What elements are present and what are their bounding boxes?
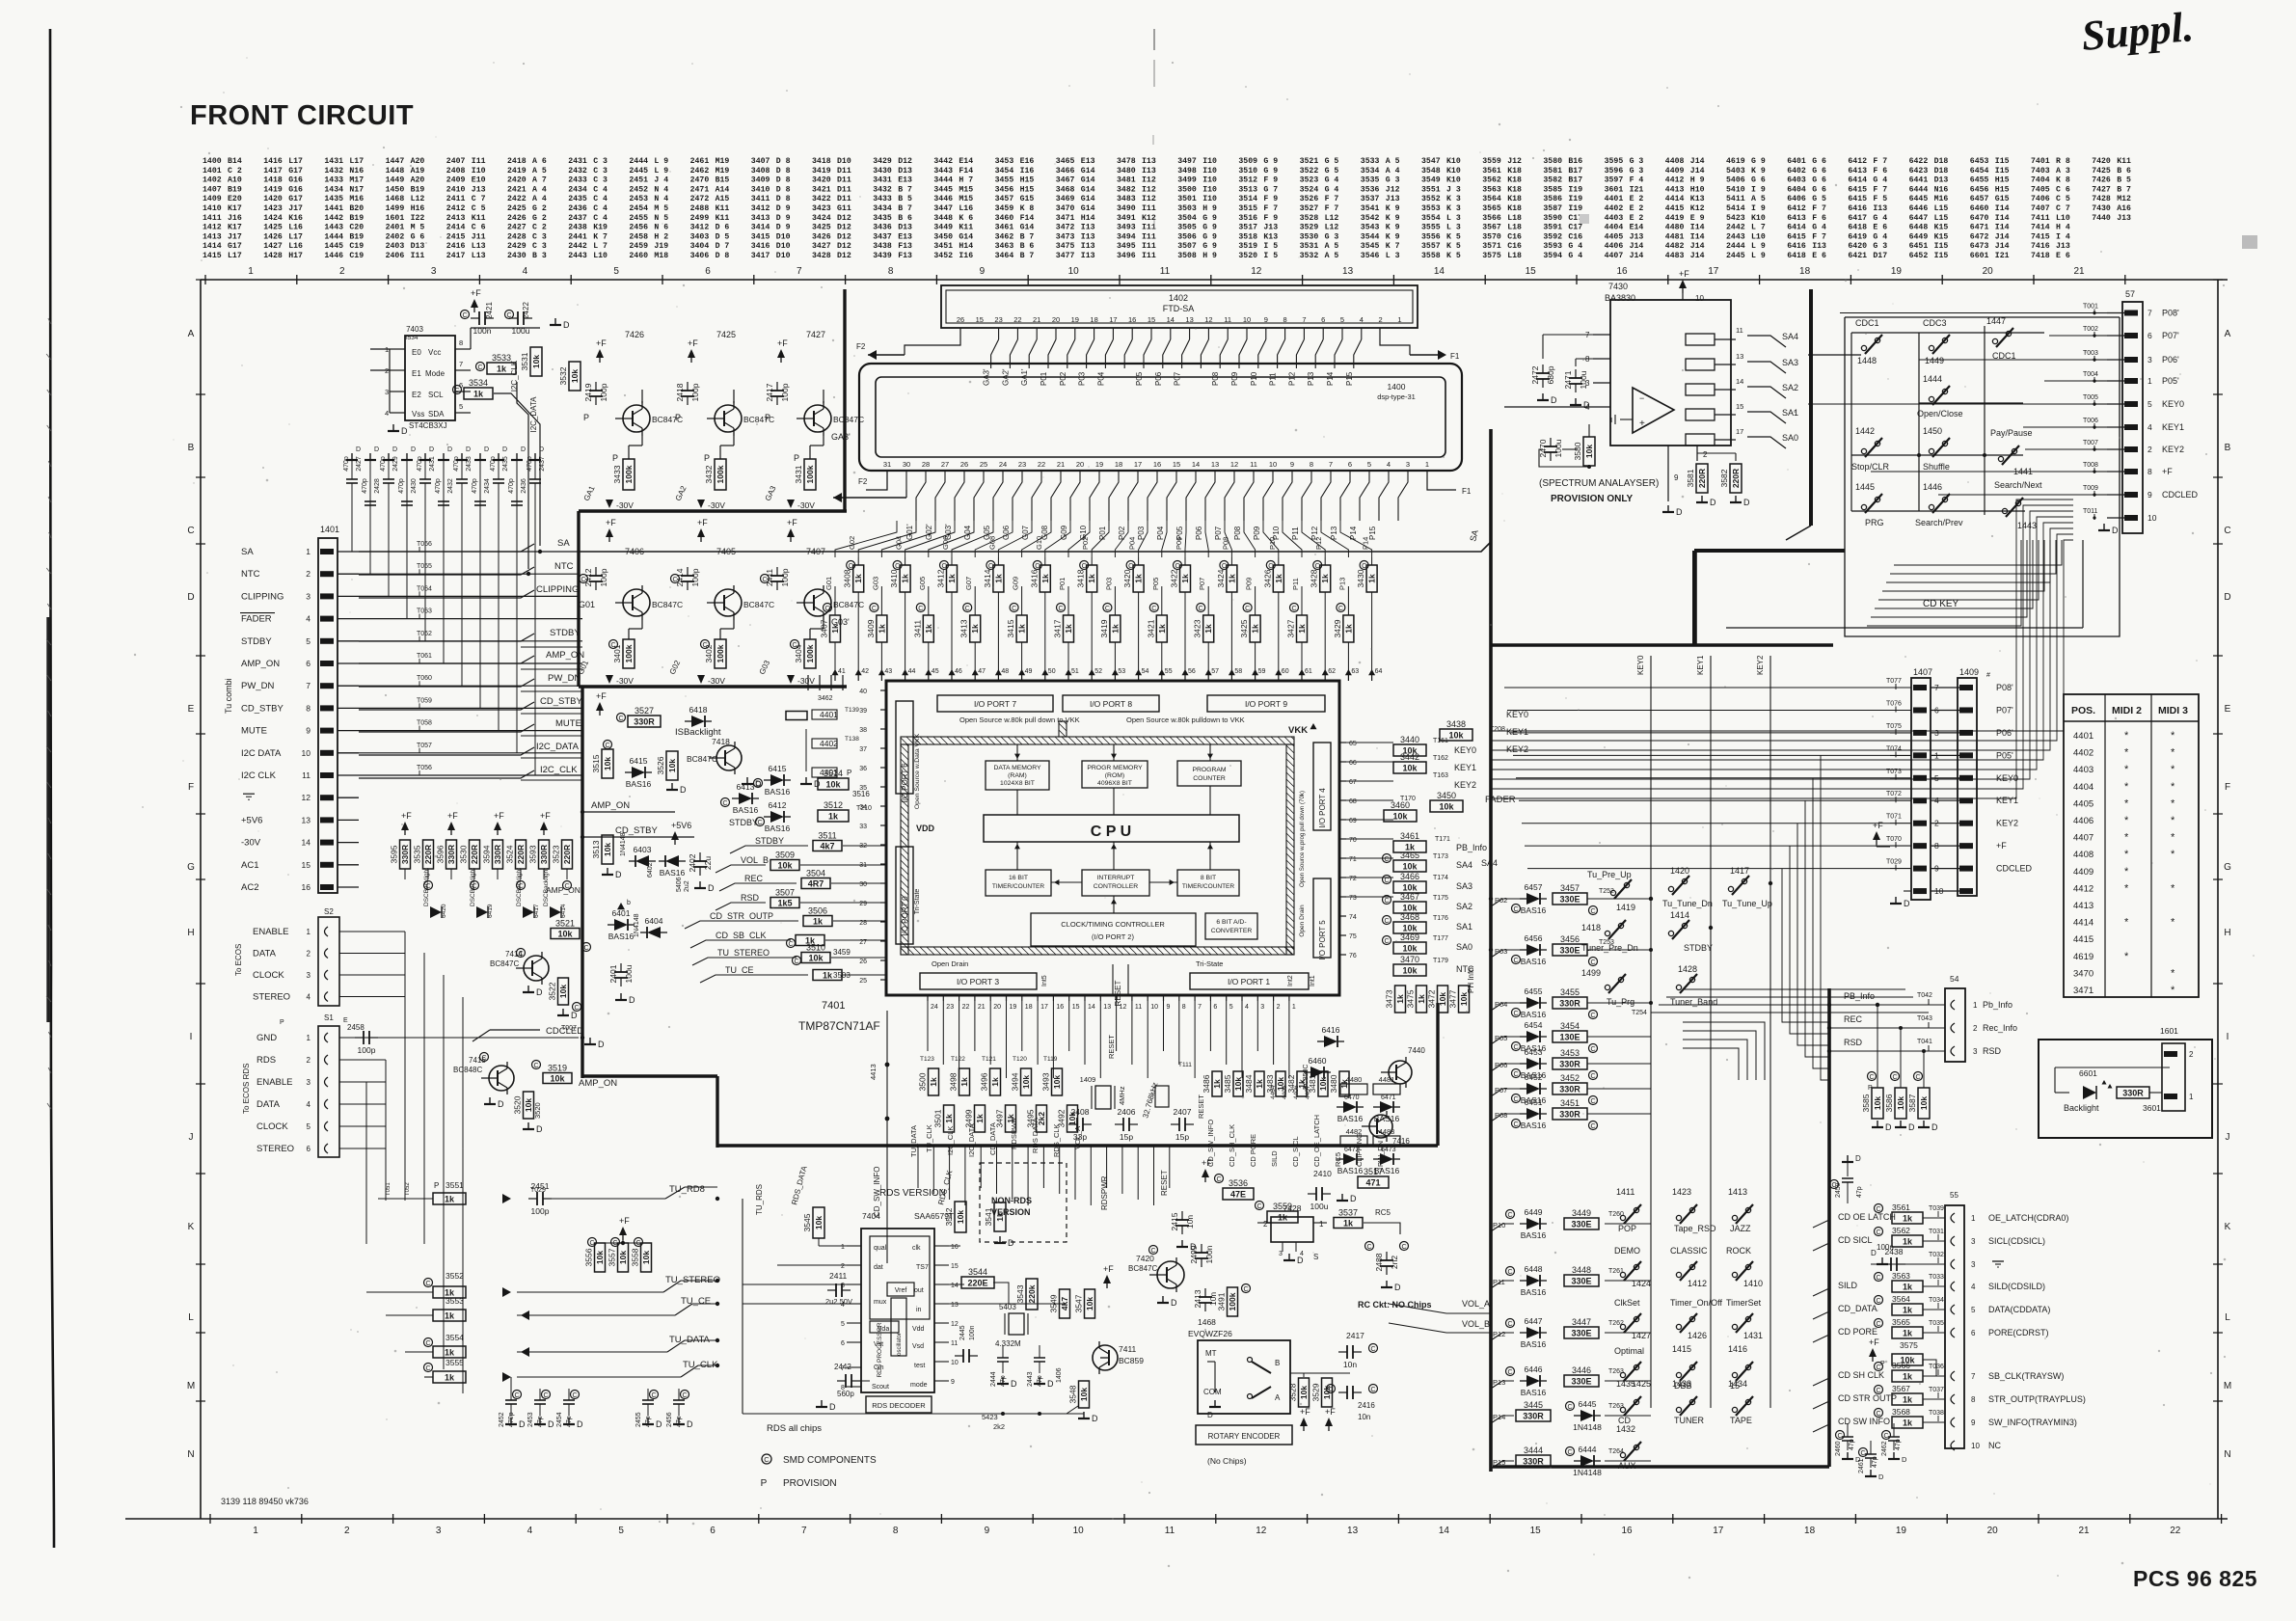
svg-text:T066: T066 xyxy=(417,541,432,548)
svg-text:I/O PORT 3: I/O PORT 3 xyxy=(957,977,999,986)
svg-text:I13: I13 xyxy=(1812,242,1826,251)
svg-text:1024X8 BIT: 1024X8 BIT xyxy=(1000,780,1035,787)
wire F1 display right xyxy=(1427,471,1456,490)
svg-text:D 8: D 8 xyxy=(776,157,791,166)
svg-text:13: 13 xyxy=(302,815,311,824)
svg-text:I14: I14 xyxy=(1995,204,2010,213)
svg-text:3491: 3491 xyxy=(1217,1292,1227,1310)
svg-text:C: C xyxy=(454,388,459,394)
svg-text:D: D xyxy=(187,592,194,603)
svg-text:3551: 3551 xyxy=(446,1180,464,1190)
resistor R3533 1k xyxy=(487,363,516,374)
svg-text:3480: 3480 xyxy=(1329,1074,1338,1093)
svg-text:+F: +F xyxy=(596,338,607,348)
svg-text:C: C xyxy=(1513,906,1518,913)
svg-text:2: 2 xyxy=(1263,1220,1268,1229)
svg-text:F 9: F 9 xyxy=(1263,195,1278,203)
svg-text:Vsd: Vsd xyxy=(912,1343,924,1350)
resistor R3522 10k xyxy=(558,978,569,1005)
svg-text:3597: 3597 xyxy=(1605,176,1624,185)
svg-text:E 2: E 2 xyxy=(1630,195,1644,203)
svg-text:10k: 10k xyxy=(595,1251,605,1264)
svg-text:AMP_ON: AMP_ON xyxy=(591,800,630,811)
svg-text:4619: 4619 xyxy=(1726,157,1745,166)
svg-text:I11: I11 xyxy=(411,252,425,260)
resistor R3411 1k array xyxy=(940,561,949,570)
svg-text:8 BIT: 8 BIT xyxy=(1201,875,1216,881)
svg-text:1k: 1k xyxy=(1903,1237,1913,1247)
svg-text:15: 15 xyxy=(976,315,984,324)
svg-text:P02: P02 xyxy=(1495,896,1507,905)
transistor Q7416 BC848C xyxy=(1369,1115,1392,1138)
svg-text:1k: 1k xyxy=(823,971,833,981)
svg-text:68: 68 xyxy=(1349,798,1357,805)
svg-text:D 9: D 9 xyxy=(776,214,791,223)
svg-text:C: C xyxy=(425,1365,430,1372)
svg-text:33p: 33p xyxy=(1073,1132,1087,1142)
svg-text:2451: 2451 xyxy=(629,176,648,185)
resistor R3526 10k xyxy=(666,751,678,780)
svg-text:C: C xyxy=(1216,1176,1221,1183)
svg-text:D: D xyxy=(1171,1298,1177,1308)
svg-text:P08': P08' xyxy=(2162,309,2179,318)
svg-text:3423: 3423 xyxy=(1193,619,1202,637)
svg-text:T122: T122 xyxy=(951,1056,965,1063)
svg-text:RDS VERSION: RDS VERSION xyxy=(879,1188,946,1199)
svg-text:F 7: F 7 xyxy=(1325,204,1339,213)
svg-text:D12: D12 xyxy=(837,214,851,223)
svg-text:9: 9 xyxy=(1674,473,1679,482)
svg-text:5: 5 xyxy=(1229,1004,1233,1011)
svg-text:1402: 1402 xyxy=(1169,293,1188,303)
svg-text:3416: 3416 xyxy=(751,242,770,251)
svg-text:H14: H14 xyxy=(959,242,973,251)
wires CPU right edge to resistor rows xyxy=(1339,742,1393,743)
IC U7403 ST4CB3XJ xyxy=(405,336,455,420)
svg-text:2445: 2445 xyxy=(1726,252,1745,260)
svg-text:3513: 3513 xyxy=(1238,185,1257,194)
svg-text:3421: 3421 xyxy=(812,185,831,194)
svg-text:1k: 1k xyxy=(975,1114,985,1123)
svg-text:9: 9 xyxy=(985,1526,990,1536)
svg-text:6445: 6445 xyxy=(1909,195,1929,203)
svg-text:3547: 3547 xyxy=(1421,157,1441,166)
svg-text:#: # xyxy=(1986,672,1990,679)
svg-text:3422: 3422 xyxy=(1170,569,1179,587)
svg-text:3426: 3426 xyxy=(812,232,831,241)
svg-text:*: * xyxy=(2124,917,2129,929)
resistor R3491 100k xyxy=(1228,1287,1238,1316)
svg-text:3477: 3477 xyxy=(1448,989,1458,1008)
svg-text:3504: 3504 xyxy=(1177,214,1197,223)
svg-text:10k: 10k xyxy=(1896,1096,1905,1110)
capacitor 100p at 7426 xyxy=(589,390,603,392)
svg-text:C16: C16 xyxy=(1568,232,1582,241)
7404 pin stubs xyxy=(847,1245,861,1247)
svg-text:3429: 3429 xyxy=(873,157,892,166)
svg-text:1442: 1442 xyxy=(1855,426,1875,436)
svg-text:C: C xyxy=(572,1392,577,1399)
svg-text:470p: 470p xyxy=(417,456,423,472)
svg-text:2441: 2441 xyxy=(568,232,587,241)
svg-text:6420: 6420 xyxy=(1848,242,1867,251)
svg-text:H 9: H 9 xyxy=(1690,176,1705,185)
resistor R3549 4k7 xyxy=(1060,1289,1070,1318)
svg-text:10: 10 xyxy=(2147,513,2157,523)
svg-text:3419: 3419 xyxy=(1099,619,1109,637)
svg-text:3454: 3454 xyxy=(1560,1021,1580,1031)
svg-text:P14: P14 xyxy=(1326,371,1335,386)
svg-text:-30V: -30V xyxy=(708,500,725,510)
svg-text:1420: 1420 xyxy=(263,195,283,203)
svg-text:L10: L10 xyxy=(1751,232,1766,241)
svg-text:A10: A10 xyxy=(228,176,242,185)
svg-text:4.332M: 4.332M xyxy=(995,1339,1021,1348)
svg-text:J: J xyxy=(189,1132,194,1143)
svg-text:1: 1 xyxy=(1971,1214,1976,1223)
svg-text:D: D xyxy=(356,446,361,453)
svg-text:H 2: H 2 xyxy=(654,232,668,241)
svg-text:L16: L16 xyxy=(288,242,303,251)
svg-text:2436: 2436 xyxy=(568,204,587,213)
capacitor C2437 470p xyxy=(534,461,536,479)
svg-text:6404: 6404 xyxy=(645,916,663,926)
svg-text:4406: 4406 xyxy=(1293,1085,1300,1099)
I/O PORT 0 box vertical xyxy=(896,847,913,944)
svg-text:3527: 3527 xyxy=(635,706,654,716)
svg-text:3482: 3482 xyxy=(1117,185,1136,194)
svg-text:7415: 7415 xyxy=(2031,232,2050,241)
svg-text:15: 15 xyxy=(1072,1004,1080,1011)
svg-text:L12: L12 xyxy=(1325,224,1339,232)
svg-text:37: 37 xyxy=(859,746,867,753)
svg-text:C: C xyxy=(477,365,482,371)
svg-text:3553: 3553 xyxy=(1421,204,1441,213)
svg-text:3494: 3494 xyxy=(1011,1072,1020,1091)
svg-text:22: 22 xyxy=(1013,315,1021,324)
svg-text:14: 14 xyxy=(1167,315,1175,324)
svg-text:D: D xyxy=(447,446,452,453)
svg-text:3448: 3448 xyxy=(1572,1265,1591,1275)
svg-text:RESET: RESET xyxy=(1160,1170,1169,1196)
svg-text:3409: 3409 xyxy=(866,619,876,637)
svg-text:14: 14 xyxy=(1439,1526,1450,1536)
svg-text:I: I xyxy=(2227,1032,2229,1042)
svg-text:I15: I15 xyxy=(1995,157,2010,166)
switch S1416 15 xyxy=(1732,1372,1737,1377)
svg-text:3511: 3511 xyxy=(818,831,836,841)
svg-text:3450: 3450 xyxy=(933,232,953,241)
svg-text:11: 11 xyxy=(1736,326,1743,335)
svg-text:2459: 2459 xyxy=(1835,1182,1842,1198)
svg-text:3501: 3501 xyxy=(933,1109,943,1127)
svg-text:100p: 100p xyxy=(599,383,608,401)
svg-text:4415: 4415 xyxy=(2073,934,2093,945)
svg-text:6454: 6454 xyxy=(1970,167,1989,176)
svg-text:G 4: G 4 xyxy=(1873,176,1887,185)
svg-text:3551: 3551 xyxy=(1421,185,1441,194)
svg-text:C 4: C 4 xyxy=(593,195,608,203)
svg-text:2455: 2455 xyxy=(629,214,648,223)
svg-text:10k: 10k xyxy=(1402,904,1418,913)
svg-text:D: D xyxy=(411,446,416,453)
svg-text:TIMER/COUNTER: TIMER/COUNTER xyxy=(1182,883,1234,890)
bottom ruler column numbers xyxy=(209,1514,211,1524)
svg-text:2471: 2471 xyxy=(1563,370,1573,389)
svg-text:100p: 100p xyxy=(358,1045,376,1055)
svg-text:I2C CLK: I2C CLK xyxy=(241,770,277,781)
svg-text:dsp-type-31: dsp-type-31 xyxy=(1377,392,1416,401)
I/O PORT 1 box xyxy=(1190,973,1309,989)
svg-text:1k: 1k xyxy=(1180,574,1190,583)
svg-text:3472: 3472 xyxy=(1056,224,1075,232)
svg-text:15: 15 xyxy=(1526,266,1537,277)
svg-text:3425: 3425 xyxy=(812,224,831,232)
svg-text:P09: P09 xyxy=(1245,578,1254,590)
svg-text:4: 4 xyxy=(527,1526,533,1536)
svg-text:3520: 3520 xyxy=(1238,252,1257,260)
svg-text:4413: 4413 xyxy=(869,1064,878,1080)
svg-text:D 6: D 6 xyxy=(716,224,730,232)
capacitor C2451 100p xyxy=(536,1192,538,1205)
svg-text:100k: 100k xyxy=(624,644,634,662)
svg-text:2: 2 xyxy=(339,266,345,277)
svg-text:T138: T138 xyxy=(845,736,859,743)
svg-text:6418: 6418 xyxy=(1787,252,1806,260)
svg-text:L12: L12 xyxy=(411,195,425,203)
svg-text:L 9: L 9 xyxy=(654,167,668,176)
svg-text:3530: 3530 xyxy=(459,845,469,863)
svg-text:G 6: G 6 xyxy=(1751,176,1766,185)
svg-text:6414: 6414 xyxy=(1848,176,1867,185)
svg-text:7420: 7420 xyxy=(2092,157,2111,166)
svg-text:2452: 2452 xyxy=(629,185,648,194)
svg-text:TAPE: TAPE xyxy=(1730,1416,1752,1425)
svg-text:1419: 1419 xyxy=(1616,903,1635,912)
svg-text:26: 26 xyxy=(859,959,867,965)
svg-text:74: 74 xyxy=(1349,914,1357,921)
svg-text:3592: 3592 xyxy=(1543,232,1562,241)
svg-text:6: 6 xyxy=(307,1145,311,1153)
svg-text:55: 55 xyxy=(1950,1191,1958,1200)
I/O PORT 9 box xyxy=(1207,695,1325,712)
switch S1444 Open/Close xyxy=(1929,396,1933,401)
svg-text:3478: 3478 xyxy=(1117,157,1136,166)
capacitor C2434 470p xyxy=(479,461,481,501)
svg-text:3580: 3580 xyxy=(1543,157,1562,166)
svg-text:7414: 7414 xyxy=(2031,224,2050,232)
svg-text:3480: 3480 xyxy=(1117,167,1136,176)
svg-text:4412: 4412 xyxy=(1665,176,1685,185)
svg-text:3575: 3575 xyxy=(1900,1340,1918,1350)
svg-text:B 6: B 6 xyxy=(1020,242,1035,251)
wire risers TU rows xyxy=(510,1199,512,1377)
svg-text:BAS16: BAS16 xyxy=(1521,957,1547,966)
svg-text:330R: 330R xyxy=(1523,1457,1544,1467)
svg-text:FADER: FADER xyxy=(241,614,272,625)
svg-text:7: 7 xyxy=(1971,1372,1976,1381)
svg-text:T037: T037 xyxy=(1929,1387,1944,1393)
svg-text:66: 66 xyxy=(1349,760,1357,767)
diode D6460 xyxy=(1310,1067,1324,1078)
svg-text:4406: 4406 xyxy=(1605,242,1624,251)
gnd stub pin3 55 xyxy=(1871,1263,1945,1265)
svg-text:10k: 10k xyxy=(1919,1096,1929,1110)
svg-text:D 8: D 8 xyxy=(776,195,791,203)
svg-text:1434: 1434 xyxy=(324,185,343,194)
below CPU resistor cluster 3500 3498 3496 3494 3493 xyxy=(929,1068,939,1095)
svg-text:P10: P10 xyxy=(1250,371,1258,386)
svg-text:4409: 4409 xyxy=(2073,867,2093,878)
svg-text:T111: T111 xyxy=(1178,1062,1192,1068)
svg-text:330R: 330R xyxy=(1559,1085,1580,1094)
svg-text:T033: T033 xyxy=(1929,1274,1944,1281)
svg-text:3469: 3469 xyxy=(1400,932,1419,942)
svg-text:63: 63 xyxy=(1351,668,1359,675)
svg-text:3440: 3440 xyxy=(1400,735,1419,744)
svg-text:J12: J12 xyxy=(1386,185,1400,194)
svg-text:10n: 10n xyxy=(1343,1360,1357,1369)
resistor R3537 1k xyxy=(1334,1218,1363,1229)
svg-text:3457: 3457 xyxy=(1560,883,1580,893)
svg-text:T009: T009 xyxy=(2083,485,2098,492)
svg-text:K18: K18 xyxy=(1507,167,1522,176)
svg-text:3: 3 xyxy=(436,1526,442,1536)
svg-text:1428: 1428 xyxy=(263,252,283,260)
svg-text:3545: 3545 xyxy=(802,1213,812,1231)
svg-text:2453: 2453 xyxy=(527,1412,534,1427)
svg-text:3413: 3413 xyxy=(959,619,969,637)
svg-text:560p: 560p xyxy=(837,1390,854,1398)
svg-text:C: C xyxy=(757,820,762,826)
capacitor C2430 470p xyxy=(406,461,408,501)
svg-text:T263: T263 xyxy=(1608,1368,1624,1375)
switch S1441 Pay/Pause xyxy=(1998,456,2003,461)
svg-text:D: D xyxy=(1047,1379,1054,1389)
svg-text:T120: T120 xyxy=(1013,1056,1027,1063)
svg-text:3510: 3510 xyxy=(806,943,825,953)
svg-text:ClkSet: ClkSet xyxy=(1614,1298,1640,1308)
svg-text:49: 49 xyxy=(1025,668,1033,675)
svg-text:1k: 1k xyxy=(924,624,933,634)
svg-text:G 6: G 6 xyxy=(1812,167,1826,176)
svg-text:6415: 6415 xyxy=(1787,232,1806,241)
svg-text:6415: 6415 xyxy=(769,764,787,773)
svg-text:19: 19 xyxy=(1010,1004,1017,1011)
svg-text:C: C xyxy=(872,606,877,612)
svg-text:1446: 1446 xyxy=(324,252,343,260)
svg-text:3: 3 xyxy=(307,1078,311,1087)
svg-text:I10: I10 xyxy=(1202,176,1217,185)
svg-text:6417: 6417 xyxy=(1848,214,1867,223)
svg-text:A20: A20 xyxy=(411,176,425,185)
svg-text:Open/Close: Open/Close xyxy=(1917,409,1963,419)
top ruler column numbers xyxy=(204,275,206,284)
svg-text:D: D xyxy=(656,1419,662,1429)
svg-text:3508: 3508 xyxy=(1177,252,1197,260)
svg-text:470p: 470p xyxy=(380,456,387,472)
svg-text:C: C xyxy=(1338,606,1343,612)
svg-text:27: 27 xyxy=(941,460,949,469)
svg-text:-30V: -30V xyxy=(708,676,725,686)
I/O PORT 3 box xyxy=(920,973,1037,989)
svg-text:BAS16: BAS16 xyxy=(1521,1388,1547,1397)
photocopy speckle noise xyxy=(821,286,823,288)
svg-text:7406: 7406 xyxy=(2031,195,2050,203)
svg-text:19: 19 xyxy=(1896,1526,1907,1536)
svg-text:1k: 1k xyxy=(993,574,1003,583)
svg-text:Pay/Pause: Pay/Pause xyxy=(1990,428,2033,438)
svg-text:30: 30 xyxy=(859,881,867,888)
svg-text:L 3: L 3 xyxy=(1386,252,1400,260)
svg-text:C: C xyxy=(1876,1206,1880,1213)
svg-text:5406: 5406 xyxy=(1726,176,1745,185)
svg-text:3519: 3519 xyxy=(1238,242,1257,251)
svg-text:T173: T173 xyxy=(1433,853,1448,860)
svg-text:*: * xyxy=(2124,730,2129,742)
svg-text:1N4148: 1N4148 xyxy=(634,913,640,937)
svg-text:6453: 6453 xyxy=(1970,157,1989,166)
svg-text:2417: 2417 xyxy=(765,383,774,401)
svg-text:E13: E13 xyxy=(898,176,912,185)
svg-text:3543: 3543 xyxy=(1361,224,1380,232)
svg-text:C: C xyxy=(1590,1098,1595,1105)
capacitor C2428 470p xyxy=(369,461,371,501)
resistor R3582 220R xyxy=(1730,464,1742,493)
svg-text:P07: P07 xyxy=(1495,1086,1507,1094)
svg-text:2420: 2420 xyxy=(507,176,527,185)
svg-text:10: 10 xyxy=(1243,315,1251,324)
capacitor C2471 100u xyxy=(1569,377,1582,379)
svg-text:10k: 10k xyxy=(814,1216,824,1229)
svg-text:C: C xyxy=(1245,606,1250,612)
transistor Q7420 BC847C xyxy=(1149,1246,1158,1255)
svg-text:H15: H15 xyxy=(1995,185,2010,194)
svg-text:L16: L16 xyxy=(959,204,973,213)
svg-text:C: C xyxy=(1507,1269,1512,1276)
svg-text:1435: 1435 xyxy=(1616,1379,1635,1389)
svg-text:10: 10 xyxy=(1971,1442,1980,1450)
svg-text:T007: T007 xyxy=(561,1025,577,1032)
resistor 100k below 7405 xyxy=(715,639,726,668)
svg-text:P: P xyxy=(794,453,799,463)
svg-text:6403: 6403 xyxy=(1787,176,1806,185)
svg-text:3563: 3563 xyxy=(1892,1271,1910,1281)
svg-text:1450: 1450 xyxy=(1923,426,1942,436)
svg-text:16: 16 xyxy=(951,1244,959,1251)
svg-text:10k: 10k xyxy=(603,843,612,856)
svg-text:2: 2 xyxy=(344,1526,350,1536)
svg-text:1k: 1k xyxy=(1087,574,1096,583)
svg-text:I/O PORT 8: I/O PORT 8 xyxy=(1090,699,1132,709)
svg-text:2409: 2409 xyxy=(446,176,466,185)
svg-text:N16: N16 xyxy=(349,167,364,176)
svg-text:P12: P12 xyxy=(1287,371,1296,386)
svg-text:T161: T161 xyxy=(1433,738,1448,744)
svg-text:T051: T051 xyxy=(386,1182,392,1196)
svg-text:C: C xyxy=(1837,1433,1842,1440)
svg-text:2422: 2422 xyxy=(522,302,530,319)
svg-text:S2: S2 xyxy=(324,907,334,916)
svg-text:7405: 7405 xyxy=(2031,185,2050,194)
CLOCK TIMING CONTROLLER box xyxy=(1031,913,1196,946)
svg-text:2408: 2408 xyxy=(446,167,466,176)
svg-text:2445: 2445 xyxy=(959,1325,966,1340)
svg-text:T072: T072 xyxy=(1886,791,1902,797)
svg-text:G 2: G 2 xyxy=(532,214,547,223)
svg-text:B19: B19 xyxy=(349,214,364,223)
svg-text:T075: T075 xyxy=(1886,723,1902,730)
